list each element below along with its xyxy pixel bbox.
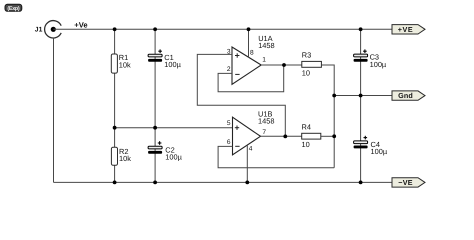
capacitor C2: [148, 146, 162, 154]
svg-text:+VE: +VE: [398, 25, 414, 34]
label R1 10k: [119, 53, 131, 69]
wire Gnd line: [334, 95, 392, 97]
pin 2: [227, 66, 231, 73]
plus mark C4: [364, 136, 368, 140]
junction dot top rail C3: [359, 27, 363, 31]
svg-text:1: 1: [262, 56, 266, 63]
label R3 10: [302, 51, 311, 78]
junction dot top rail R1: [113, 27, 117, 31]
wire R1 column: [114, 29, 116, 127]
op-amp U1B: [233, 117, 261, 155]
junction dot top rail pin8: [247, 27, 251, 31]
capacitor C3: [354, 54, 368, 62]
label U1A 1458: [258, 34, 274, 50]
junction dot mid rail R1 R2: [113, 126, 117, 130]
pin 6: [227, 139, 231, 146]
junction dot bottom rail R2: [113, 181, 117, 185]
svg-text:(Exp): (Exp): [7, 6, 19, 12]
op-amp U1A: [232, 47, 261, 84]
label R4 10: [302, 122, 311, 149]
plus mark C2: [158, 141, 162, 145]
svg-text:10: 10: [302, 140, 310, 149]
pin 3: [227, 48, 231, 55]
svg-text:1458: 1458: [258, 41, 274, 50]
resistor R3: [302, 61, 322, 67]
wire C3 C4 column: [360, 29, 362, 182]
net tag +VE: [392, 25, 425, 34]
junction dot top rail C1: [153, 27, 157, 31]
junction dot U1A output feedback: [282, 63, 286, 67]
wire C1 C2 column: [154, 29, 156, 182]
label C1 100u: [164, 53, 181, 69]
junction dot U1B output: [283, 135, 287, 139]
junction dot bottom rail pin4: [245, 181, 249, 185]
capacitor C4: [354, 141, 368, 149]
junction dot mid rail C1 C2: [153, 126, 157, 130]
net tag -VE: [392, 178, 425, 187]
wire U1B pin6 feedback loop: [218, 146, 334, 167]
svg-text:100µ: 100µ: [164, 60, 181, 69]
svg-text:10k: 10k: [119, 154, 131, 163]
junction dot bottom rail C2: [153, 181, 157, 185]
wire middle rail: [115, 127, 233, 129]
label C2 100u: [165, 145, 182, 161]
svg-text:10k: 10k: [119, 60, 131, 69]
svg-text:100µ: 100µ: [371, 147, 388, 156]
label C4 100u: [371, 140, 388, 156]
plus mark C1: [158, 49, 162, 53]
connector J1: [45, 21, 62, 38]
svg-text:1458: 1458: [258, 117, 274, 126]
junction dot common node R4: [332, 134, 336, 138]
junction dot bottom rail C4: [359, 181, 363, 185]
resistor R4: [302, 133, 321, 139]
wire R3 right to common node: [321, 65, 334, 168]
svg-text:7: 7: [262, 129, 266, 136]
svg-text:5: 5: [227, 120, 231, 127]
pin 4: [249, 146, 253, 153]
wire R2 column: [114, 128, 116, 183]
wire top rail +Ve: [53, 28, 392, 30]
minus input mark U1A: [235, 73, 239, 75]
label U1B 1458: [258, 110, 274, 126]
svg-text:R4: R4: [302, 122, 311, 131]
plus input mark U1B: [235, 126, 239, 130]
svg-text:J1: J1: [35, 26, 43, 33]
wire U1A pin3 input path: [197, 54, 285, 136]
junction dot Gnd line C3 C4: [359, 94, 363, 98]
svg-text:6: 6: [227, 139, 231, 146]
junction dot common node Gnd: [332, 94, 336, 98]
svg-text:2: 2: [227, 66, 231, 73]
svg-text:8: 8: [250, 50, 254, 57]
pin 5: [227, 120, 231, 127]
wire U1B pin4 power: [246, 145, 248, 182]
net tag Gnd: [392, 91, 425, 100]
label R2 10k: [119, 147, 131, 163]
svg-text:100µ: 100µ: [370, 60, 387, 69]
svg-text:+Ve: +Ve: [74, 21, 87, 30]
pin 1: [262, 56, 266, 63]
label +Ve: [74, 21, 87, 30]
wire U1A pin2 feedback loop: [218, 65, 284, 92]
svg-text:4: 4: [249, 146, 253, 153]
plus input mark U1A: [235, 53, 239, 57]
logo badge: [5, 4, 22, 12]
svg-text:100µ: 100µ: [165, 152, 182, 161]
label C3 100u: [370, 53, 387, 69]
wire J1 left drop: [53, 38, 55, 183]
wire U1A output: [261, 64, 302, 66]
svg-text:−VE: −VE: [398, 178, 412, 187]
svg-text:Gnd: Gnd: [398, 91, 413, 100]
label J1: [35, 26, 43, 33]
minus input mark U1B: [235, 145, 239, 147]
resistor R2: [111, 147, 117, 165]
resistor R1: [111, 54, 117, 73]
svg-text:10: 10: [302, 68, 310, 77]
plus mark C3: [363, 49, 367, 53]
pin 8: [250, 50, 254, 57]
pin 7: [262, 129, 266, 136]
wire bottom rail: [54, 181, 393, 183]
capacitor C1: [148, 54, 162, 62]
wire U1A pin8 power: [248, 29, 250, 57]
wire U1B output: [261, 135, 302, 137]
svg-text:R3: R3: [302, 51, 311, 60]
wire R4 right lead: [321, 135, 334, 137]
